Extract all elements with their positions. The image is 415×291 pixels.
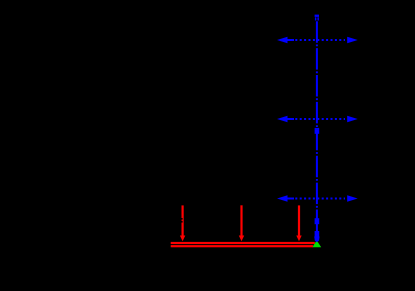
- centerline (vertical blue dash-dot axis): [316, 21, 318, 237]
- dimension arrow row 2 (y=119, outward double arrow, dashed): [277, 116, 358, 123]
- load arrow 2 (red, middle): [239, 205, 244, 241]
- marker block on centerline (lower): [315, 231, 320, 237]
- dimension arrow row 3 (y=198.5, outward double arrow, dashed): [277, 195, 358, 202]
- dimension arrow row 1 (y=40, outward double arrow, dashed): [277, 37, 358, 44]
- load arrow 1 (red, leftmost): [180, 205, 185, 241]
- black label notches over load arrow 1 shaft: [181, 218, 182, 223]
- downward arrowhead at support (centerline tip): [314, 237, 319, 243]
- beam bottom chord (red): [171, 245, 313, 247]
- load arrow 3 (red, rightmost): [296, 205, 301, 241]
- pin support (green triangle): [312, 240, 321, 247]
- marker block on centerline (middle): [315, 218, 320, 224]
- beam top chord (red): [171, 242, 315, 244]
- axis label pi (top of centerline): [315, 15, 319, 21]
- marker block on centerline (upper): [315, 128, 320, 134]
